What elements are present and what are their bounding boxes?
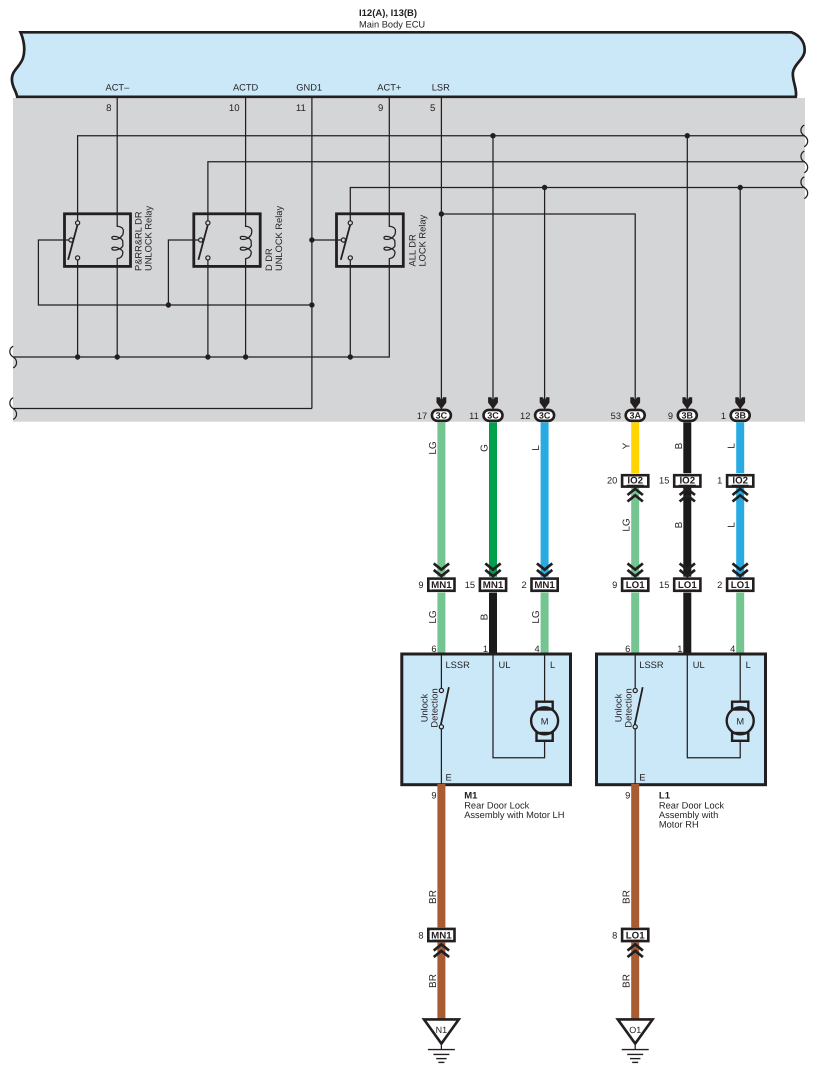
M1 motor <box>531 702 558 741</box>
wire L column 12-3C <box>541 422 549 576</box>
node relay2 coil / bus F <box>243 354 248 359</box>
svg-text:10: 10 <box>229 103 240 114</box>
svg-text:ACT+: ACT+ <box>377 83 401 93</box>
M1 L internal wire <box>544 655 546 702</box>
node bus A / B-wire <box>685 133 690 138</box>
svg-text:B: B <box>674 442 685 449</box>
svg-text:B: B <box>480 613 491 620</box>
svg-text:Motor RH: Motor RH <box>659 820 699 830</box>
svg-text:LSR: LSR <box>432 83 450 93</box>
wire L between IO2 and LO1 col6 <box>736 487 744 577</box>
wire BR L1-E to LO1 <box>631 784 639 927</box>
svg-text:UL: UL <box>693 660 705 670</box>
svg-text:LG: LG <box>531 610 542 624</box>
svg-text:G: G <box>480 444 491 452</box>
relay P&RR&RL DR UNLOCK <box>65 214 131 267</box>
svg-text:M: M <box>736 716 744 726</box>
svg-text:BR: BR <box>428 890 439 904</box>
wire bus G (GND1 off-page) <box>14 408 312 410</box>
wire Y column 53-3A <box>631 422 639 473</box>
node bus C / L-wire <box>542 185 547 190</box>
node GND1 / relay3 common <box>309 237 314 242</box>
svg-text:1: 1 <box>717 476 722 486</box>
junction dots <box>75 133 743 360</box>
svg-text:L: L <box>727 522 738 528</box>
wire pin10 to relay2 coil <box>245 98 247 227</box>
connector oval 3C pin12 <box>520 397 554 421</box>
svg-text:UnlockDetection: UnlockDetection <box>613 688 633 727</box>
connector MN1 pin2 <box>522 563 558 591</box>
svg-text:BR: BR <box>622 890 633 904</box>
connector LO1 pin15 <box>659 563 700 591</box>
ground point N1 <box>424 1019 459 1062</box>
svg-text:1: 1 <box>483 644 488 654</box>
wire LG below MN1 col1 <box>437 593 445 655</box>
svg-text:9: 9 <box>625 791 630 801</box>
svg-text:GND1: GND1 <box>296 83 322 93</box>
svg-text:L: L <box>550 660 555 670</box>
wire GND1 vertical <box>311 98 313 409</box>
wire BR M1-E to MN1 <box>437 784 445 927</box>
L1 UL internal wire <box>687 655 740 758</box>
node bus C / L2-wire <box>738 185 743 190</box>
svg-text:Main Body ECU: Main Body ECU <box>359 20 425 30</box>
connector MN1 pin8 <box>418 929 454 957</box>
svg-text:53: 53 <box>611 411 621 421</box>
svg-text:2: 2 <box>522 580 527 590</box>
wire relay1 coil to bus F <box>116 258 118 357</box>
break symbol bus C right <box>801 177 808 199</box>
shield gray background <box>13 98 805 422</box>
L1 L internal wire <box>739 655 741 702</box>
svg-text:L: L <box>531 445 542 451</box>
node relay1 switch / bus F <box>75 354 80 359</box>
svg-text:15: 15 <box>465 580 475 590</box>
svg-text:B: B <box>674 521 685 528</box>
wire bus D (LSR to 3A) <box>441 214 635 409</box>
wire bus B (relay2 output) <box>208 162 805 221</box>
svg-text:P&RR&RL DRUNLOCK Relay: P&RR&RL DRUNLOCK Relay <box>134 206 154 271</box>
svg-text:20: 20 <box>607 476 617 486</box>
svg-text:I12(A), I13(B): I12(A), I13(B) <box>359 8 417 19</box>
node relay1 coil / bus F <box>115 354 120 359</box>
relay ALL DR LOCK <box>337 214 404 267</box>
wire B below LO1 col5 <box>683 593 691 655</box>
svg-text:LSSR: LSSR <box>446 660 471 670</box>
svg-text:6: 6 <box>431 644 436 654</box>
M1 UL internal wire <box>493 655 545 758</box>
svg-text:UL: UL <box>499 660 511 670</box>
door lock assembly L1 box <box>597 654 766 785</box>
wire G column 11-3C <box>489 422 497 576</box>
node bus A / G-wire <box>490 133 495 138</box>
svg-text:12: 12 <box>520 411 530 421</box>
break symbol bus F left <box>10 346 17 368</box>
svg-text:LG: LG <box>428 441 439 455</box>
connector IO2 pin15 <box>659 475 700 501</box>
svg-text:9: 9 <box>431 791 436 801</box>
L1 unlock detection switch <box>633 655 643 784</box>
wire relay1 switch lower to bus F <box>77 260 79 357</box>
wire branch B to 3B <box>686 136 688 409</box>
wire relay3 common link <box>312 239 337 241</box>
svg-text:LG: LG <box>428 610 439 624</box>
svg-text:3B: 3B <box>682 411 694 421</box>
wire LG below LO1 col6 <box>736 593 744 655</box>
door lock assembly M1 box <box>402 654 571 785</box>
svg-text:L: L <box>746 660 751 670</box>
relay D DR UNLOCK <box>194 214 260 267</box>
connector oval 3B pin1 <box>721 397 750 421</box>
wire pin8 to relay1 coil <box>116 98 118 227</box>
svg-text:1: 1 <box>677 644 682 654</box>
svg-text:6: 6 <box>625 644 630 654</box>
svg-text:15: 15 <box>659 476 669 486</box>
svg-text:4: 4 <box>730 644 735 654</box>
ground point O1 <box>618 1019 653 1062</box>
wire LG below MN1 col3 <box>541 593 549 655</box>
break symbol bus B right <box>801 151 808 173</box>
node LSR / bus D <box>439 211 444 216</box>
svg-text:O1: O1 <box>629 1025 641 1035</box>
svg-text:ACTD: ACTD <box>233 83 259 93</box>
svg-text:11: 11 <box>296 103 306 114</box>
wire bus A (relay1 output) <box>78 136 805 221</box>
svg-text:M: M <box>541 716 549 726</box>
svg-text:BR: BR <box>428 974 439 988</box>
connector MN1 pin9 <box>418 563 454 591</box>
svg-text:Assembly with Motor LH: Assembly with Motor LH <box>464 810 564 820</box>
svg-text:UnlockDetection: UnlockDetection <box>420 688 440 727</box>
wire BR MN1 to ground N1 <box>437 943 445 1020</box>
wire B between IO2 and LO1 col5 <box>683 487 691 577</box>
wire bus C (relay3 output) <box>350 188 805 221</box>
connector oval 3C pin17 <box>417 397 451 421</box>
svg-text:3C: 3C <box>436 411 448 421</box>
connector LO1 pin8 <box>612 929 648 957</box>
wire relay commons to GND1 <box>38 240 312 305</box>
wire relay2 common branch <box>168 240 193 305</box>
svg-text:LSSR: LSSR <box>639 660 664 670</box>
wire relay3 switch lower to bus F <box>349 260 351 357</box>
svg-text:3C: 3C <box>487 411 499 421</box>
svg-text:4: 4 <box>535 644 540 654</box>
svg-text:9: 9 <box>418 580 423 590</box>
svg-text:2: 2 <box>717 580 722 590</box>
connector LO1 pin2 <box>717 563 753 591</box>
svg-text:8: 8 <box>612 930 617 940</box>
svg-text:9: 9 <box>612 580 617 590</box>
connector oval 3B pin9 <box>668 397 697 421</box>
node relay2 switch / bus F <box>205 354 210 359</box>
svg-text:3A: 3A <box>629 411 641 421</box>
wire L column 1-3B <box>736 422 744 473</box>
svg-text:E: E <box>639 773 645 783</box>
connector MN1 pin15 <box>465 563 506 591</box>
wire relay2 switch lower to bus F <box>207 260 209 357</box>
wire LG between IO2 and LO1 col4 <box>631 487 639 577</box>
svg-text:5: 5 <box>430 103 435 114</box>
wire LG column 17-3C <box>437 422 445 576</box>
wire branch L to 3C <box>544 188 546 410</box>
connector IO2 pin20 <box>607 475 648 501</box>
wire BR LO1 to ground O1 <box>631 943 639 1020</box>
node relay3 switch / bus F <box>348 354 353 359</box>
svg-text:11: 11 <box>469 411 479 421</box>
svg-text:3C: 3C <box>539 411 551 421</box>
svg-text:9: 9 <box>378 103 383 114</box>
L1 motor <box>727 702 754 741</box>
svg-text:E: E <box>446 773 452 783</box>
svg-text:Y: Y <box>622 442 633 449</box>
svg-text:1: 1 <box>721 411 726 421</box>
wire relay2 coil to bus F <box>245 258 247 357</box>
svg-text:LG: LG <box>622 518 633 532</box>
svg-text:9: 9 <box>668 411 673 421</box>
Main Body ECU block <box>12 32 805 97</box>
node relay2 common branch <box>166 302 171 307</box>
wire pin9 to relay3 coil <box>388 98 390 227</box>
wire B column 9-3B <box>683 422 691 473</box>
break symbol bus A right <box>801 125 808 147</box>
wire LSR vertical to 3C <box>440 98 442 409</box>
connector LO1 pin9 <box>612 563 648 591</box>
svg-text:8: 8 <box>418 930 423 940</box>
svg-text:3B: 3B <box>734 411 746 421</box>
svg-text:15: 15 <box>659 580 669 590</box>
wire LG below LO1 col4 <box>631 593 639 655</box>
svg-text:17: 17 <box>417 411 427 421</box>
svg-text:ACT–: ACT– <box>106 83 131 93</box>
M1 unlock detection switch <box>439 655 449 784</box>
connector oval 3C pin11 <box>469 397 502 421</box>
break symbol bus G left <box>10 398 17 420</box>
connector IO2 pin1 <box>717 475 753 501</box>
wire branch G to 3C <box>492 136 494 409</box>
svg-text:BR: BR <box>622 974 633 988</box>
svg-text:L: L <box>727 443 738 449</box>
wire B below MN1 col2 <box>489 593 497 655</box>
svg-text:N1: N1 <box>436 1025 448 1035</box>
connector oval 3A pin53 <box>611 397 645 421</box>
node GND1 / commons bus <box>309 302 314 307</box>
wire branch L to 3B <box>739 188 741 410</box>
wire bus F (coil return) <box>14 258 390 357</box>
svg-text:8: 8 <box>106 103 111 114</box>
